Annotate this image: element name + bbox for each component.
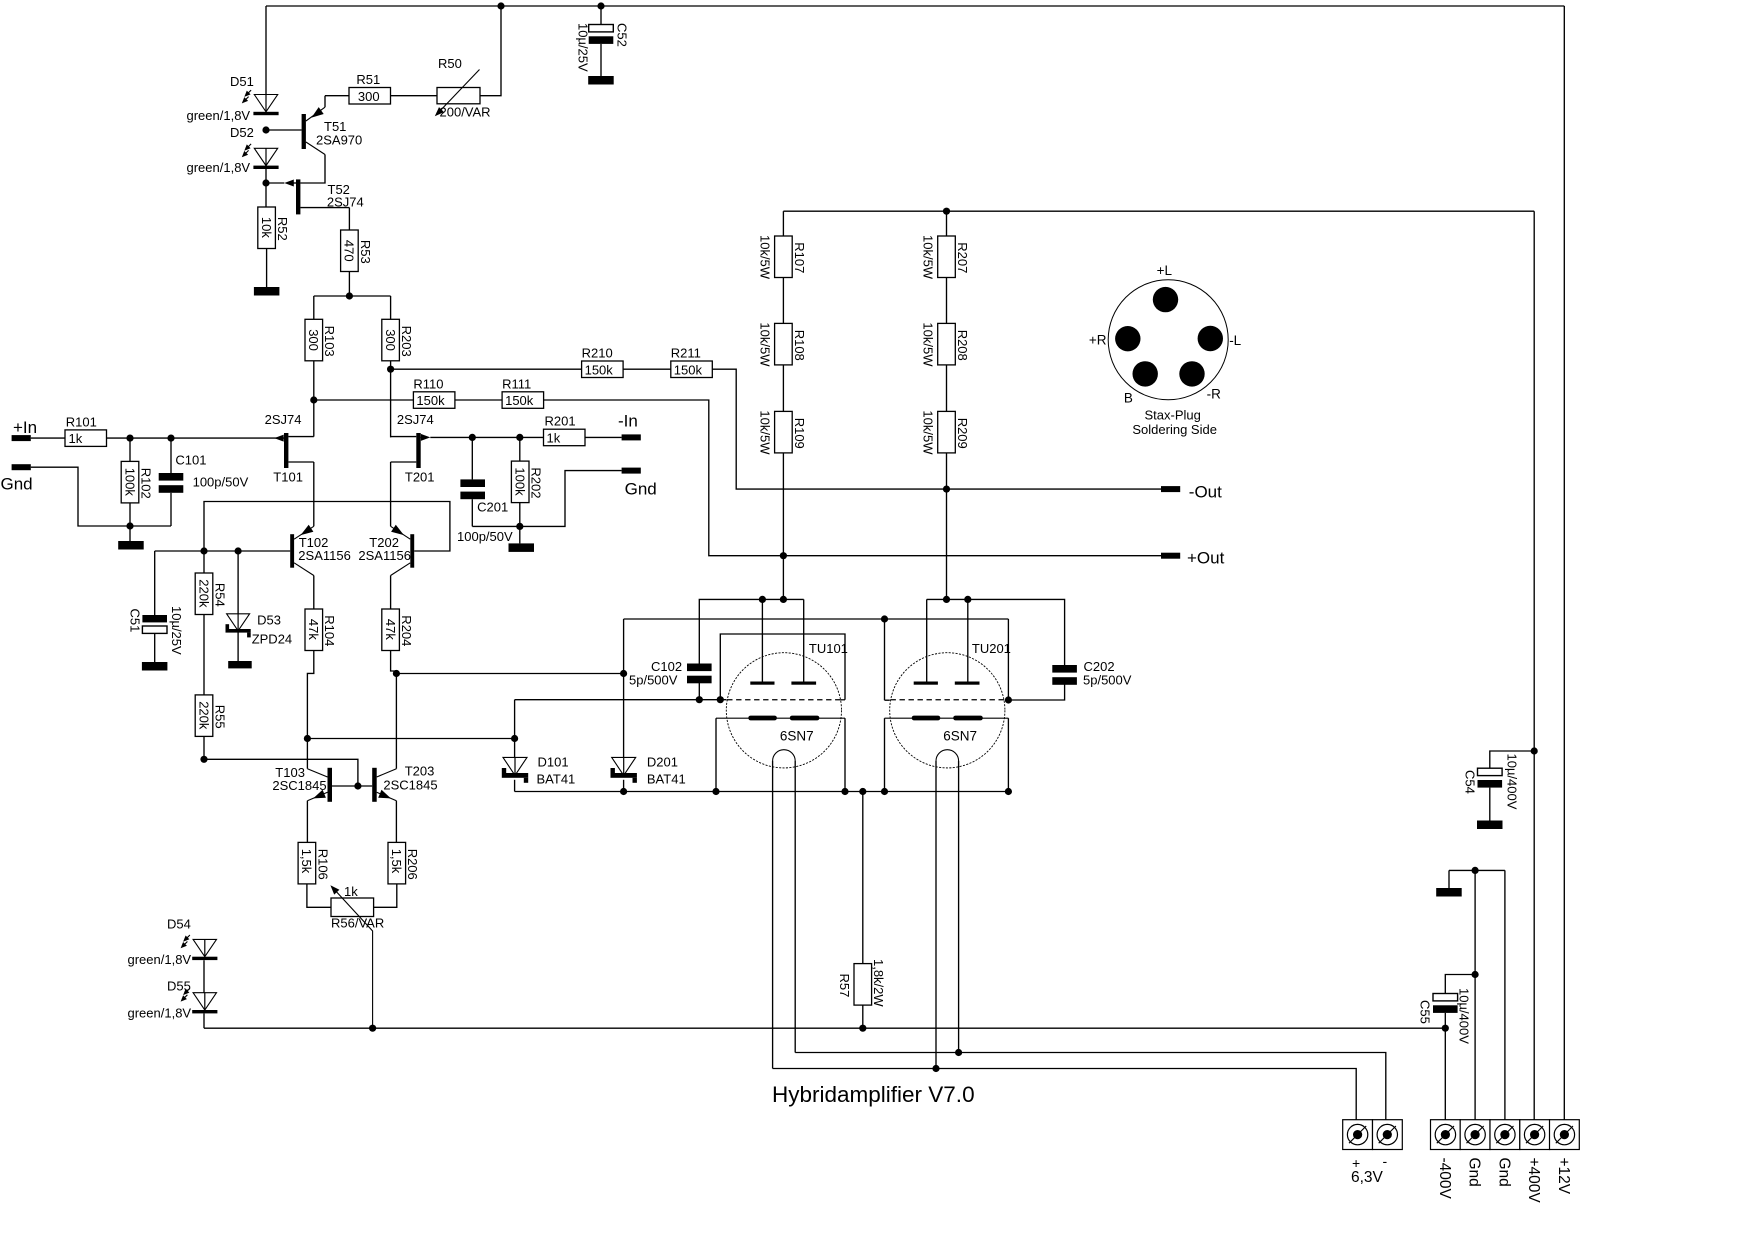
svg-text:D201: D201 <box>647 754 678 769</box>
capacitor C201 <box>471 437 473 479</box>
junction TU101 anode left <box>759 596 766 603</box>
stax pin +R <box>1115 326 1140 351</box>
resistor R53 <box>341 230 359 272</box>
resistor R102 <box>129 438 131 461</box>
wire grid drive y619 <box>624 618 1009 620</box>
resistor R111 <box>502 392 543 409</box>
svg-text:2SA1156: 2SA1156 <box>298 548 351 563</box>
ground R202 <box>509 543 535 552</box>
junction C101 top <box>167 435 174 442</box>
resistor R101 <box>65 430 107 447</box>
svg-text:R209: R209 <box>955 418 970 449</box>
resistor R55 <box>195 695 213 737</box>
junction C102 grid <box>696 696 703 703</box>
wire TU201 left anode drop <box>926 599 928 681</box>
LED D54 <box>204 939 206 956</box>
svg-text:6SN7: 6SN7 <box>943 729 977 744</box>
connector pin -400V <box>1431 1120 1461 1150</box>
svg-text:Soldering Side: Soldering Side <box>1132 422 1217 437</box>
svg-text:R102: R102 <box>138 468 153 499</box>
transistor T201 2SJ74 <box>416 433 420 468</box>
svg-text:+12V: +12V <box>1555 1158 1572 1195</box>
svg-text:Hybridamplifier V7.0: Hybridamplifier V7.0 <box>772 1082 975 1107</box>
wire R210-R211 <box>623 368 671 370</box>
connector 6,3V pin - <box>1373 1120 1403 1150</box>
svg-text:2SA970: 2SA970 <box>316 133 362 148</box>
wire R204 jog down <box>391 651 397 674</box>
svg-text:BAT41: BAT41 <box>537 771 576 786</box>
resistor R203 <box>382 319 400 361</box>
wire R202 gnd stub <box>519 526 521 543</box>
svg-text:R107: R107 <box>792 242 807 273</box>
svg-text:150k: 150k <box>585 362 614 377</box>
svg-text:300: 300 <box>358 89 380 104</box>
svg-text:Gnd: Gnd <box>1495 1158 1512 1187</box>
wire D55 to -400V rail <box>203 1014 205 1029</box>
svg-text:D53: D53 <box>257 613 281 628</box>
wire D52 to R52 <box>265 166 267 207</box>
svg-text:T201: T201 <box>405 470 435 485</box>
svg-text:R103: R103 <box>322 326 337 357</box>
wire +In to R101 <box>31 437 65 439</box>
resistor R56 variable <box>331 898 374 917</box>
svg-text:R53: R53 <box>358 240 373 264</box>
svg-text:R208: R208 <box>955 330 970 361</box>
wire TU101 left anode drop <box>761 599 763 681</box>
svg-text:R207: R207 <box>955 242 970 273</box>
svg-text:B: B <box>1124 391 1133 406</box>
svg-text:10k/5W: 10k/5W <box>757 410 772 455</box>
svg-text:1k: 1k <box>547 431 561 446</box>
junction TU101 anode chain <box>780 596 787 603</box>
wire T102 collector to R104 <box>313 576 315 610</box>
terminal -In <box>622 434 641 440</box>
wire D201 cathode <box>623 780 625 792</box>
wire TU101 heater leg2 <box>794 761 796 1053</box>
wire T102 base line y551 <box>155 550 291 552</box>
junction rail TU101 left link <box>712 788 719 795</box>
wire R104 jog down <box>307 651 313 739</box>
ground C51 <box>142 662 168 671</box>
wire R111 to +Out <box>544 400 1161 556</box>
wire TU101 right cathode link <box>844 718 846 791</box>
svg-text:-Out: -Out <box>1189 483 1222 502</box>
junction D101 anode <box>511 735 518 742</box>
wire base bias line y501 <box>204 502 450 552</box>
junction y551 D53 <box>235 547 242 554</box>
svg-text:Gnd: Gnd <box>1 475 33 494</box>
junction +Out R109 chain <box>780 552 787 559</box>
LED D55 <box>204 993 206 1010</box>
svg-text:T203: T203 <box>405 764 435 779</box>
svg-text:150k: 150k <box>416 393 445 408</box>
resistor R50 variable <box>437 88 480 104</box>
wire R103 to T101 drain <box>313 361 315 437</box>
resistor R104 <box>305 609 323 651</box>
svg-text:6SN7: 6SN7 <box>780 729 814 744</box>
svg-text:BAT41: BAT41 <box>647 771 686 786</box>
resistor R51 <box>349 88 391 105</box>
ground near C55 <box>1436 888 1462 897</box>
wire TU201 heater leg1 <box>935 761 937 1069</box>
svg-text:Stax-Plug: Stax-Plug <box>1145 408 1201 423</box>
svg-text:+Out: +Out <box>1187 549 1225 568</box>
svg-text:+L: +L <box>1157 263 1173 278</box>
resistor R108 <box>775 323 793 365</box>
svg-text:green/1,8V: green/1,8V <box>128 952 192 967</box>
resistor R211 <box>671 361 713 378</box>
wire T51 emitter to R51 <box>325 95 349 97</box>
resistor R106 <box>298 842 316 884</box>
wire C102 top to anode rail TU101 <box>699 599 803 663</box>
junction R103 line y400 <box>310 396 317 403</box>
wire y673 line to D201 <box>396 673 623 675</box>
svg-text:1k: 1k <box>69 431 83 446</box>
capacitor C51 <box>154 551 156 615</box>
wire x884 cathode link <box>884 718 886 791</box>
connector 6,3V pin + <box>1343 1120 1373 1150</box>
svg-text:300: 300 <box>306 329 321 351</box>
svg-text:150k: 150k <box>674 362 703 377</box>
svg-text:D101: D101 <box>538 754 569 769</box>
svg-text:C55: C55 <box>1418 1000 1433 1024</box>
terminal +In <box>12 435 31 441</box>
svg-text:10µ/25V: 10µ/25V <box>576 23 591 72</box>
junction D201 anode <box>620 670 627 677</box>
resistor R52 <box>258 207 276 249</box>
svg-text:D54: D54 <box>167 917 191 932</box>
wire T203 collector up <box>395 674 397 769</box>
wire R208-R209 <box>946 365 948 412</box>
capacitor C102 <box>687 664 712 672</box>
svg-text:100p/50V: 100p/50V <box>193 475 249 490</box>
svg-text:2SC1845: 2SC1845 <box>272 778 326 793</box>
transistor T51 2SA970 <box>302 114 306 149</box>
svg-text:Gnd: Gnd <box>1466 1158 1483 1187</box>
resistor R207 <box>938 236 956 278</box>
capacitor C55 <box>1445 975 1475 994</box>
transistor T202 2SA1156 <box>410 534 414 568</box>
wire rail to R107 <box>782 211 784 236</box>
svg-text:10µ/400V: 10µ/400V <box>1505 754 1520 810</box>
resistor R110 <box>413 392 455 409</box>
junction TU201 anode chain <box>943 596 950 603</box>
junction R204-T203 <box>393 670 400 677</box>
svg-text:10k/5W: 10k/5W <box>921 410 936 455</box>
svg-text:1k: 1k <box>344 884 358 899</box>
svg-text:R52: R52 <box>275 217 290 241</box>
svg-text:220k: 220k <box>196 579 211 608</box>
wire R206 to R56 <box>374 884 397 907</box>
wire TU201 right cathode link <box>1007 718 1009 791</box>
capacitor C202 <box>1052 665 1077 673</box>
svg-text:2SA1156: 2SA1156 <box>358 548 411 563</box>
wire R107-R108 <box>782 278 784 324</box>
svg-text:10k/5W: 10k/5W <box>921 235 936 280</box>
wire x884 link <box>884 619 886 700</box>
junction top rail C52 <box>597 2 604 9</box>
wire R50 to top rail <box>480 6 501 96</box>
svg-text:R204: R204 <box>399 615 414 646</box>
wire TU101 heater leg1 <box>772 761 774 1069</box>
svg-text:R108: R108 <box>792 330 807 361</box>
tube TU101 6SN7 <box>726 653 841 768</box>
svg-text:C201: C201 <box>477 500 508 515</box>
svg-text:D52: D52 <box>230 125 254 140</box>
svg-text:10µ/400V: 10µ/400V <box>1457 988 1472 1044</box>
tube TU201 6SN7 <box>890 653 1005 768</box>
wire D201 drive drop <box>623 619 625 757</box>
wire T103 collector up <box>306 739 308 769</box>
svg-text:ZPD24: ZPD24 <box>252 632 292 647</box>
junction C55 bottom <box>1442 1025 1449 1032</box>
wire R110-R111 <box>455 399 502 401</box>
junction heater plus TU201 <box>932 1065 939 1072</box>
ground D53 <box>228 661 252 668</box>
svg-text:100k: 100k <box>122 468 137 497</box>
svg-text:10µ/25V: 10µ/25V <box>169 606 184 655</box>
svg-text:TU101: TU101 <box>809 641 848 656</box>
svg-text:R109: R109 <box>792 418 807 449</box>
wire TU101 left cathode link <box>715 718 717 791</box>
svg-text:R111: R111 <box>502 376 531 391</box>
junction R55 bottom <box>200 756 207 763</box>
wire R201 to -In <box>585 436 622 438</box>
resistor R206 <box>388 842 406 884</box>
wire y400 line <box>314 399 414 401</box>
wire C55 to -400V pin <box>1444 1028 1446 1120</box>
junction T103 T203 bases <box>354 782 361 789</box>
resistor R204 <box>382 609 400 651</box>
stax pin -R <box>1179 361 1204 386</box>
svg-text:5p/500V: 5p/500V <box>1083 673 1132 688</box>
svg-text:220k: 220k <box>196 701 211 730</box>
capacitor C52 <box>600 6 602 25</box>
junction C54 +400V <box>1531 747 1538 754</box>
wire rail to R207 <box>946 211 948 236</box>
resistor R209 <box>938 411 956 453</box>
wire R51-R50 <box>391 95 438 97</box>
resistor R201 <box>544 429 586 446</box>
resistor R107 <box>775 236 793 278</box>
wire D54-D55 <box>203 960 205 993</box>
wire R207-R208 <box>946 278 948 324</box>
svg-text:470: 470 <box>342 240 357 262</box>
svg-text:200/VAR: 200/VAR <box>440 105 491 120</box>
svg-text:R50: R50 <box>438 56 462 71</box>
svg-text:1,5k: 1,5k <box>299 849 314 874</box>
junction rail R57 <box>859 788 866 795</box>
svg-text:-R: -R <box>1207 387 1221 402</box>
wire T52 source to R53 <box>348 208 350 230</box>
svg-text:R210: R210 <box>582 346 613 361</box>
svg-text:D55: D55 <box>167 979 191 994</box>
junction y619 cathode link <box>881 615 888 622</box>
junction R203 line y369 <box>387 366 394 373</box>
svg-text:C51: C51 <box>128 609 143 633</box>
svg-text:C52: C52 <box>615 23 630 47</box>
svg-text:TU201: TU201 <box>972 641 1011 656</box>
svg-text:R101: R101 <box>66 414 97 429</box>
junction rail R207 <box>943 208 950 215</box>
wire R209 down to tube rail <box>946 453 948 600</box>
svg-text:R110: R110 <box>413 376 443 391</box>
svg-text:Gnd: Gnd <box>625 480 657 499</box>
wire heater line plus <box>773 1069 1357 1120</box>
wire +400V right drop <box>1533 211 1535 1119</box>
wire TU201 right anode drop <box>967 599 969 681</box>
junction R102 top <box>126 435 133 442</box>
wire Gnd pin2 drop <box>1474 870 1476 1119</box>
svg-text:10k/5W: 10k/5W <box>921 322 936 367</box>
wire T51 collector to T52 <box>300 155 325 184</box>
wire +12V top rail <box>266 5 1564 7</box>
wire bases link <box>332 785 372 787</box>
junction R104-T103 y738 <box>304 735 311 742</box>
junction Gnd pin2 link <box>1472 867 1479 874</box>
junction TU101 grid link <box>717 696 724 703</box>
svg-text:47k: 47k <box>306 619 321 640</box>
svg-text:green/1,8V: green/1,8V <box>128 1006 192 1021</box>
wire T101 source down <box>313 462 315 526</box>
terminal +Out <box>1161 553 1180 559</box>
diode D53 ZPD24 <box>237 551 239 614</box>
wire TU101 grid top link <box>720 634 845 700</box>
resistor R202 <box>519 437 521 461</box>
junction y551 R54 <box>200 547 207 554</box>
svg-text:5p/500V: 5p/500V <box>629 673 678 688</box>
wire gnd bar stub <box>1448 870 1450 888</box>
wire TU201 heater leg2 <box>958 761 960 1053</box>
wire R211 to -Out <box>712 369 1161 489</box>
junction rail x884 <box>881 788 888 795</box>
svg-text:R203: R203 <box>399 326 414 357</box>
wire R109 down to tube rail <box>782 453 784 600</box>
svg-text:R55: R55 <box>212 705 227 729</box>
transistor T101 2SJ74 <box>284 433 288 468</box>
svg-text:green/1,8V: green/1,8V <box>187 160 251 175</box>
wire C201-R202 gnd link <box>472 471 621 527</box>
wire R53 bottom split <box>348 272 350 297</box>
wire Gnd left path <box>31 467 171 526</box>
wire Gnd link top <box>1449 869 1505 871</box>
connector pin +400V <box>1520 1120 1550 1150</box>
svg-text:100p/50V: 100p/50V <box>457 529 513 544</box>
wire grid stub TU101 left <box>515 699 727 701</box>
connector pin +12V <box>1550 1120 1580 1150</box>
wire C202 top to anode rail TU201 <box>927 599 1065 665</box>
LED D52 <box>265 148 267 165</box>
junction R202 bottom <box>516 523 523 530</box>
wire R52 to ground <box>266 249 268 288</box>
svg-text:R202: R202 <box>529 467 544 498</box>
wire -400V rail <box>204 1027 1445 1029</box>
capacitor C101 <box>170 438 172 473</box>
svg-text:R201: R201 <box>545 414 576 429</box>
junction R57 bottom <box>859 1025 866 1032</box>
wire TU201 grid right link <box>1007 619 1009 700</box>
svg-text:R56/VAR: R56/VAR <box>331 916 384 931</box>
wire R101 to T101 gate <box>107 437 285 439</box>
stax plug circle <box>1108 280 1228 400</box>
wire +12V right drop <box>1563 6 1565 1120</box>
wire R108-R109 <box>782 365 784 412</box>
svg-text:300: 300 <box>383 329 398 351</box>
wire cathode rail y791 <box>515 791 1009 793</box>
svg-text:6,3V: 6,3V <box>1351 1169 1384 1186</box>
wire TU101 right anode drop <box>803 599 805 681</box>
resistor R208 <box>938 323 956 365</box>
wire to R103 <box>313 296 315 319</box>
svg-text:+R: +R <box>1089 333 1107 348</box>
diode D201 BAT41 <box>623 757 625 775</box>
junction top rail R50 <box>497 2 504 9</box>
terminal Gnd right <box>622 468 641 474</box>
stax pin +L <box>1153 287 1178 312</box>
wire to R203 <box>390 296 392 319</box>
wire Gnd pin3 drop <box>1504 870 1506 1119</box>
wire x884 gridstub <box>885 699 890 701</box>
diode D101 BAT41 <box>514 757 516 775</box>
junction R53 bottom <box>346 292 353 299</box>
transistor T203 2SC1845 <box>372 768 377 802</box>
svg-text:1,8k/2W: 1,8k/2W <box>871 959 886 1007</box>
junction R202 top <box>516 434 523 441</box>
terminal Gnd left <box>12 464 31 470</box>
ground R52 <box>254 287 280 296</box>
ground R102 <box>118 541 144 550</box>
svg-text:green/1,8V: green/1,8V <box>187 108 251 123</box>
svg-text:10k: 10k <box>259 217 274 238</box>
junction D51-D52 T51 base <box>262 126 269 133</box>
svg-text:R211: R211 <box>671 346 701 361</box>
wire T202 collector to R204 <box>390 576 392 610</box>
junction -Out R209 chain <box>943 486 950 493</box>
svg-text:R106: R106 <box>315 849 330 880</box>
svg-text:-: - <box>1383 1153 1388 1169</box>
wire R203 to T201 drain <box>390 361 392 438</box>
wire T201 source down <box>390 462 392 526</box>
svg-text:2SJ74: 2SJ74 <box>265 412 302 427</box>
svg-text:2SC1845: 2SC1845 <box>383 778 437 793</box>
capacitor C54 <box>1490 751 1534 768</box>
wire top rail to D51 <box>265 6 267 95</box>
svg-text:R51: R51 <box>356 72 380 87</box>
svg-text:10k/5W: 10k/5W <box>757 322 772 367</box>
junction R56 wiper <box>369 1025 376 1032</box>
svg-text:47k: 47k <box>383 619 398 640</box>
wire T103 emitter to R106 <box>306 801 308 843</box>
resistor R210 <box>582 361 624 378</box>
wire T203 emitter to R206 <box>395 801 397 843</box>
svg-text:-L: -L <box>1229 333 1241 348</box>
transistor T102 2SA1156 <box>290 534 294 568</box>
junction heater minus TU201 <box>955 1049 962 1056</box>
wire TU101 grid right stub <box>841 699 845 701</box>
resistor R103 <box>305 319 323 361</box>
junction rail TU101 right link <box>841 788 848 795</box>
wire C102 bottom to grid <box>698 683 700 700</box>
junction R102 bottom <box>126 522 133 529</box>
junction TU201 grid link <box>1005 696 1012 703</box>
wire R106 to R56 <box>307 884 331 907</box>
resistor R57 <box>862 792 864 964</box>
stax pin B <box>1133 361 1158 386</box>
svg-text:T101: T101 <box>273 470 303 485</box>
transistor T52 2SJ74 <box>296 179 300 214</box>
svg-text:+400V: +400V <box>1525 1158 1542 1204</box>
wire D101 cathode <box>514 780 516 792</box>
